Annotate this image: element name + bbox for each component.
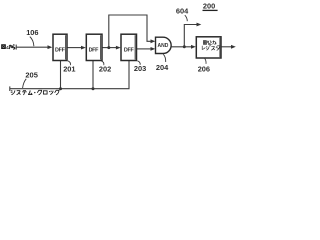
DFF2 right-edge shading <box>100 35 102 59</box>
svg-text:DFF: DFF <box>89 48 100 54</box>
DFF2 box 202 <box>86 34 102 60</box>
svg-text:DFF: DFF <box>55 48 66 54</box>
leader 203 <box>138 61 141 65</box>
DFF3 right-edge shading <box>134 35 136 59</box>
leader 106 <box>30 37 34 47</box>
svg-text:4: 4 <box>6 45 9 51</box>
node junction clock-DFF2 dot <box>92 87 95 90</box>
svg-text:202: 202 <box>99 65 111 74</box>
node junction A dot <box>107 46 110 49</box>
svg-text:AND: AND <box>157 43 168 49</box>
arrowhead into register <box>191 45 196 49</box>
wire input from FIG.4 <box>16 46 49 48</box>
svg-text:204: 204 <box>156 63 169 72</box>
arrowhead into DFF1 <box>48 45 53 49</box>
register text line2 レジスタ <box>202 46 220 51</box>
register box 206 (interrupt register) <box>196 37 221 58</box>
svg-text:106: 106 <box>26 28 38 37</box>
leader 202 <box>101 61 104 65</box>
middle dot <box>34 92 35 93</box>
register text line1 割込み <box>203 40 216 44</box>
wire system clock rail <box>10 61 129 89</box>
svg-text:206: 206 <box>198 64 210 73</box>
leader 205 <box>23 79 27 88</box>
svg-text:205: 205 <box>25 71 38 80</box>
wire DFF2 to DFF3 <box>102 47 117 49</box>
underline 200 <box>203 9 218 11</box>
wire clock to DFF1 <box>60 61 62 89</box>
arrowhead into DFF2 <box>81 46 86 50</box>
DFF1 right-edge shading <box>65 35 67 59</box>
arrowhead into DFF3 <box>116 46 121 50</box>
leader 201 <box>68 61 71 65</box>
arrowhead register output <box>231 45 236 49</box>
text 図4から (from FIG.4) <box>2 45 6 49</box>
wire clock to DFF2 <box>92 61 94 89</box>
node junction 604 dot <box>183 45 186 48</box>
node clock rail start tick <box>9 86 11 91</box>
text システム・クロック (system clock) <box>11 90 59 95</box>
wire AND output to register <box>170 46 192 48</box>
wire top rail from node A to AND top input <box>109 15 151 48</box>
arrowhead 604 pointing right <box>197 23 202 27</box>
arrowhead into AND bottom input <box>151 47 156 51</box>
leader 206 <box>205 59 206 64</box>
wire DFF3 to AND bottom input <box>137 48 152 50</box>
wire register output <box>221 46 232 48</box>
svg-text:604: 604 <box>176 7 189 16</box>
svg-text:200: 200 <box>203 2 215 11</box>
wire 604 branch up <box>184 25 197 47</box>
leader 204 <box>163 54 165 62</box>
DFF3 box 203 <box>121 34 137 60</box>
DFF1 box 201 <box>53 34 67 60</box>
wire DFF1 to DFF2 <box>67 47 82 49</box>
svg-text:DFF: DFF <box>124 48 135 54</box>
leader 604 <box>185 15 188 21</box>
node junction clock-DFF1 dot <box>59 87 62 90</box>
node input start tick <box>15 45 17 50</box>
AND gate 204 <box>156 37 172 53</box>
register right-edge shading <box>219 38 221 57</box>
arrowhead into AND top input <box>151 39 156 43</box>
svg-text:201: 201 <box>63 65 75 74</box>
svg-text:203: 203 <box>134 64 146 73</box>
